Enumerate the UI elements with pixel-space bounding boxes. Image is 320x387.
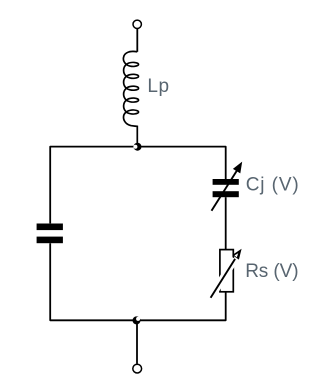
wire (bottom rail with left and right risers) [50, 243, 226, 320]
arrowhead notch of Rs [234, 253, 238, 257]
arrowhead of Rs [232, 249, 241, 260]
arrow shaft of Cj [212, 171, 237, 211]
wire (top rail with left and right drops) [50, 147, 226, 224]
arrow casing of Rs (white halo interrupting box outline) [211, 259, 236, 298]
node dot bottom white notch [136, 317, 140, 321]
capacitor C1 (left, fixed) top plate [37, 224, 63, 231]
terminal T2 (bottom open circle) [133, 364, 142, 373]
arrowhead of Cj [233, 162, 242, 174]
svg-text:Cj (V): Cj (V) [246, 174, 300, 195]
capacitor Cj bottom plate [213, 191, 239, 197]
inductor L1 loop lens 1 [126, 62, 138, 66]
inductor L1 loop lens 5 [126, 110, 138, 114]
arrow shaft of Rs [211, 259, 236, 298]
node dot top (junction of inductor and top rail) [134, 143, 142, 151]
inductor L1 loop lens 4 [126, 98, 138, 102]
inductor L1 spine (coil left arcs and hooks) [123, 51, 137, 146]
capacitor Cj top plate [213, 179, 239, 185]
svg-text:Lp: Lp [147, 76, 169, 97]
capacitor C1 bottom plate [37, 237, 63, 244]
wire (Cj to Rs) [225, 197, 227, 249]
node dot top white notch [133, 145, 137, 149]
inductor L1 loop lens 2 [126, 74, 138, 78]
wire (bottom node to bottom terminal) [136, 322, 138, 364]
inductor L1 loop lens 3 [126, 86, 138, 90]
node dot bottom (junction of bottom rail and terminal) [133, 316, 141, 324]
wire (top terminal to inductor) [136, 29, 138, 52]
svg-text:Rs (V): Rs (V) [245, 261, 298, 282]
terminal T1 (top open circle) [133, 20, 141, 28]
resistor Rs box [220, 250, 233, 292]
